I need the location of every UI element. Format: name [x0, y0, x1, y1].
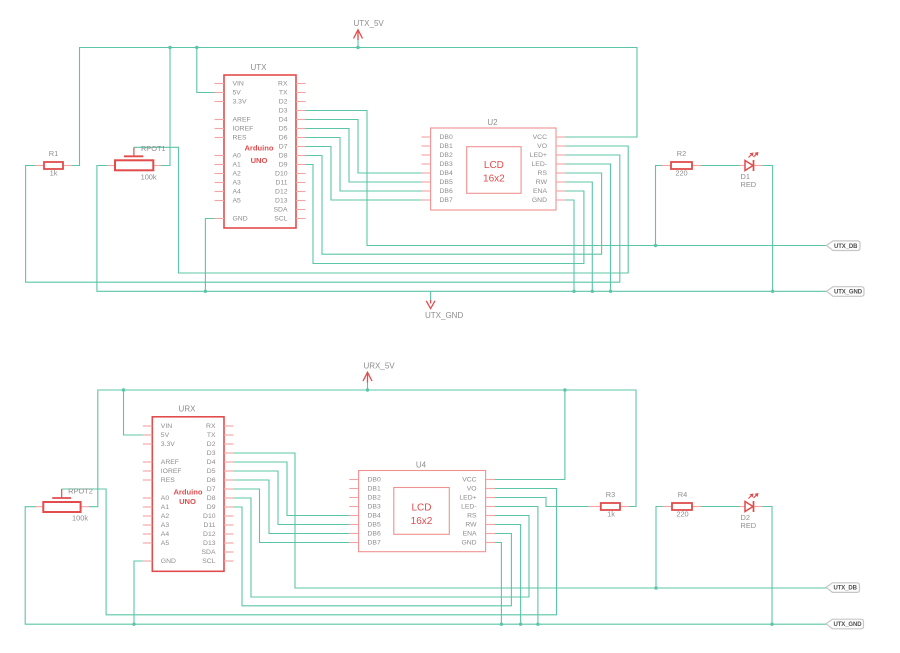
svg-text:ENA: ENA — [463, 530, 477, 537]
net label UTX_GND (bottom) — [826, 619, 864, 629]
wire URX D4 to U4 DB4 — [234, 462, 350, 516]
junction LCD RW/GND bus — [591, 290, 594, 293]
svg-text:LED-: LED- — [532, 161, 548, 168]
junction U4 LED-/GND bus — [536, 623, 539, 626]
wire R1 left to LCD LED+ — [26, 155, 620, 282]
svg-text:D4: D4 — [207, 459, 216, 466]
IC URX Arduino UNO — [143, 405, 234, 572]
svg-text:URX: URX — [179, 405, 197, 414]
IC UTX Arduino UNO — [215, 63, 306, 228]
svg-text:IOREF: IOREF — [233, 125, 254, 132]
wire UTX D4 to LCD DB4 — [306, 120, 422, 174]
svg-text:5V: 5V — [161, 432, 170, 439]
wire D1 cathode to GND bus — [763, 166, 773, 292]
svg-text:A3: A3 — [233, 179, 242, 186]
wire URX D3 to UTX_DB flag — [234, 453, 828, 588]
LED D1 RED — [740, 152, 763, 189]
svg-text:D10: D10 — [203, 513, 216, 520]
svg-text:A0: A0 — [233, 152, 242, 159]
svg-text:D7: D7 — [279, 143, 288, 150]
svg-text:Arduino: Arduino — [173, 488, 202, 497]
svg-text:D12: D12 — [275, 188, 288, 195]
svg-text:D9: D9 — [279, 161, 288, 168]
svg-text:UTX_5V: UTX_5V — [354, 19, 385, 28]
wire LCD GND to GND bus — [566, 200, 575, 291]
svg-text:D11: D11 — [204, 522, 216, 529]
wire R4 to D2 — [701, 506, 740, 508]
svg-text:D5: D5 — [207, 468, 216, 475]
svg-text:DB0: DB0 — [368, 476, 381, 483]
svg-text:A3: A3 — [161, 522, 170, 529]
svg-text:LED-: LED- — [461, 503, 477, 510]
svg-text:GND: GND — [532, 197, 547, 204]
svg-text:VO: VO — [537, 143, 547, 150]
svg-text:GND: GND — [233, 215, 248, 222]
wire UTX_DB net to R4 left — [656, 507, 663, 589]
svg-text:A4: A4 — [161, 531, 170, 538]
svg-text:R4: R4 — [678, 490, 687, 499]
wire URX D6 to U4 DB6 — [234, 480, 350, 534]
svg-text:RS: RS — [538, 170, 548, 177]
svg-text:AREF: AREF — [233, 116, 251, 123]
svg-text:RPOT1: RPOT1 — [141, 144, 166, 153]
svg-text:D7: D7 — [207, 486, 216, 493]
wire URX D5 to U4 DB5 — [234, 471, 350, 525]
svg-text:D6: D6 — [207, 477, 216, 484]
junction UTX GND/GND bus — [204, 290, 207, 293]
svg-text:DB3: DB3 — [440, 161, 453, 168]
svg-text:D8: D8 — [207, 495, 216, 502]
svg-text:Arduino: Arduino — [244, 144, 273, 153]
svg-text:VCC: VCC — [533, 134, 547, 141]
svg-text:DB5: DB5 — [368, 521, 381, 528]
svg-text:RS: RS — [467, 512, 477, 519]
wire RPOT1 right to 5V bus — [161, 48, 170, 166]
wire UTX D7 to LCD DB7 — [306, 147, 422, 201]
LED D2 RED — [740, 493, 763, 530]
svg-text:DB6: DB6 — [440, 188, 453, 195]
junction UTX 5V pin/5V bus — [195, 46, 198, 49]
svg-text:LED+: LED+ — [459, 494, 476, 501]
junction R2 branch on UTX_DB net — [654, 244, 657, 247]
junction RPOT1/5V bus — [168, 46, 171, 49]
svg-text:RW: RW — [465, 521, 477, 528]
wire RPOT2 wiper to U4 VO — [62, 489, 557, 615]
junction U4 VCC/5V bus — [563, 388, 566, 391]
svg-text:UTX_DB: UTX_DB — [834, 244, 858, 250]
svg-text:DB7: DB7 — [368, 539, 381, 546]
svg-text:VIN: VIN — [161, 423, 172, 430]
svg-text:D8: D8 — [279, 152, 288, 159]
svg-text:IOREF: IOREF — [161, 468, 182, 475]
svg-text:A5: A5 — [233, 197, 242, 204]
power flag URX_5V — [363, 362, 395, 392]
svg-text:VIN: VIN — [233, 80, 244, 87]
svg-text:DB2: DB2 — [368, 494, 381, 501]
power flag UTX_5V — [354, 19, 385, 49]
svg-text:D13: D13 — [203, 540, 216, 547]
svg-text:D5: D5 — [279, 125, 288, 132]
svg-text:D4: D4 — [279, 116, 288, 123]
net label UTX_DB (bottom) — [826, 583, 860, 593]
potentiometer RPOT2 100k — [36, 487, 93, 523]
junction R4 branch on UTX_DB net — [654, 586, 657, 589]
wire R2 to D1 — [701, 165, 740, 167]
wire U4 LED+ to R3 left — [495, 498, 589, 507]
svg-text:D2: D2 — [207, 441, 216, 448]
svg-text:SDA: SDA — [202, 549, 216, 556]
svg-text:D11: D11 — [276, 179, 288, 186]
svg-text:UTX_DB: UTX_DB — [834, 586, 858, 592]
svg-text:220: 220 — [676, 510, 688, 519]
junction U4 GND/GND bus — [500, 623, 503, 626]
junction D2 cathode/GND bus — [770, 623, 773, 626]
potentiometer RPOT1 100k — [108, 144, 166, 182]
wire GND bus top (RPOT1 left to UTX_GND flag) — [97, 166, 827, 292]
svg-text:VO: VO — [467, 485, 477, 492]
IC U4 LCD 16x2 — [349, 461, 495, 552]
wire U4 GND to GND bus — [495, 543, 501, 625]
svg-text:A1: A1 — [161, 504, 170, 511]
svg-text:16x2: 16x2 — [483, 174, 505, 185]
junction U4 RW/GND bus — [519, 623, 522, 626]
svg-text:D3: D3 — [207, 450, 216, 457]
svg-text:U2: U2 — [487, 118, 498, 127]
svg-text:LCD: LCD — [484, 160, 504, 171]
resistor R3 1k — [589, 490, 629, 519]
svg-text:3.3V: 3.3V — [233, 98, 247, 105]
svg-text:SCL: SCL — [274, 215, 287, 222]
junction URX 5V pin/5V bus — [122, 388, 125, 391]
svg-text:D10: D10 — [275, 170, 288, 177]
resistor R4 220 — [663, 490, 701, 519]
svg-text:100k: 100k — [72, 514, 88, 523]
svg-text:SCL: SCL — [202, 558, 215, 565]
wire UTX D3 to UTX_DB flag — [306, 111, 828, 246]
wire UTX D8 to LCD RS — [306, 156, 602, 255]
junction LCD GND/GND bus — [572, 290, 575, 293]
wire UTX GND pin to GND bus — [205, 219, 214, 292]
svg-text:RW: RW — [536, 179, 548, 186]
wire UTX D5 to LCD DB5 — [306, 129, 422, 183]
wire URX D9 to U4 ENA — [234, 507, 512, 606]
svg-text:LED+: LED+ — [530, 152, 547, 159]
svg-text:1k: 1k — [607, 510, 615, 519]
svg-text:D12: D12 — [203, 531, 216, 538]
svg-text:D13: D13 — [275, 197, 288, 204]
svg-text:DB1: DB1 — [368, 485, 381, 492]
svg-text:VCC: VCC — [462, 476, 476, 483]
wire 5V bus bottom (RPOT2 right to R3 right) — [89, 390, 636, 507]
svg-text:UTX_GND: UTX_GND — [425, 311, 463, 320]
wire GND bus bottom (RPOT2 left to UTX_GND flag) — [25, 507, 827, 625]
svg-text:RX: RX — [206, 423, 216, 430]
wire URX D8 to U4 RS — [234, 498, 530, 597]
svg-text:TX: TX — [279, 89, 288, 96]
svg-text:RES: RES — [161, 477, 175, 484]
resistor R1 1k — [35, 149, 72, 178]
wire URX GND pin to GND bus — [134, 561, 143, 624]
wire 5V bus to UTX 5V pin — [197, 48, 215, 93]
svg-text:GND: GND — [461, 539, 476, 546]
junction D1 cathode/GND bus — [771, 290, 774, 293]
svg-text:DB2: DB2 — [440, 152, 453, 159]
wire UTX D6 to LCD DB6 — [306, 138, 422, 192]
svg-text:RED: RED — [741, 521, 757, 530]
wire 5V bus to LCD U4 VCC — [495, 390, 565, 480]
svg-text:A4: A4 — [233, 188, 242, 195]
junction URX GND/GND bus — [132, 623, 135, 626]
svg-text:AREF: AREF — [161, 459, 179, 466]
svg-text:DB4: DB4 — [368, 512, 381, 519]
IC U2 LCD 16x2 — [422, 118, 566, 210]
svg-text:R2: R2 — [677, 149, 686, 158]
net label UTX_GND (top) — [827, 287, 865, 297]
wire LCD RW to GND bus — [566, 182, 593, 291]
svg-text:R3: R3 — [606, 490, 615, 499]
resistor R2 220 — [662, 149, 701, 178]
svg-text:3.3V: 3.3V — [161, 441, 175, 448]
svg-text:UTX_GND: UTX_GND — [834, 290, 863, 296]
svg-text:D6: D6 — [279, 134, 288, 141]
svg-text:GND: GND — [161, 558, 176, 565]
svg-text:SDA: SDA — [274, 206, 288, 213]
wire UTX_DB net to R2 left — [656, 166, 663, 246]
svg-text:A0: A0 — [161, 495, 170, 502]
svg-text:TX: TX — [207, 432, 216, 439]
net label UTX_DB (top) — [827, 241, 861, 251]
svg-text:D2: D2 — [279, 98, 288, 105]
svg-text:100k: 100k — [141, 173, 157, 182]
wire LCD LED- to GND bus — [566, 164, 611, 291]
svg-text:U4: U4 — [416, 461, 427, 470]
svg-text:16x2: 16x2 — [411, 516, 433, 527]
svg-text:RX: RX — [278, 80, 288, 87]
svg-text:D9: D9 — [207, 504, 216, 511]
power flag UTX_GND — [425, 291, 463, 320]
svg-text:A2: A2 — [161, 513, 170, 520]
svg-text:UTX: UTX — [251, 63, 268, 72]
svg-text:URX_5V: URX_5V — [364, 362, 396, 371]
svg-text:DB6: DB6 — [368, 530, 381, 537]
svg-text:5V: 5V — [233, 89, 242, 96]
svg-text:1k: 1k — [50, 169, 58, 178]
svg-text:RPOT2: RPOT2 — [68, 487, 93, 496]
svg-text:A1: A1 — [233, 161, 242, 168]
svg-text:220: 220 — [675, 169, 687, 178]
wire URX D7 to U4 DB7 — [234, 489, 350, 543]
wire U4 RW to GND bus — [495, 525, 521, 625]
svg-text:UNO: UNO — [251, 156, 268, 165]
svg-text:R1: R1 — [49, 149, 58, 158]
svg-text:LCD: LCD — [411, 503, 431, 514]
svg-text:RES: RES — [233, 134, 247, 141]
wire UTX D9 to LCD ENA — [306, 165, 584, 264]
junction LCD LED-/GND bus — [609, 290, 612, 293]
svg-text:A5: A5 — [161, 540, 170, 547]
svg-text:ENA: ENA — [533, 188, 547, 195]
svg-text:DB1: DB1 — [440, 143, 453, 150]
svg-text:DB0: DB0 — [440, 134, 453, 141]
svg-text:UTX_GND: UTX_GND — [834, 622, 863, 628]
svg-text:DB4: DB4 — [440, 170, 453, 177]
wire 5V bus to URX 5V pin — [124, 390, 143, 435]
wire D2 cathode to GND bus — [763, 507, 773, 625]
svg-text:DB5: DB5 — [440, 179, 453, 186]
wire U4 LED- to GND bus — [495, 507, 538, 625]
svg-text:D3: D3 — [279, 107, 288, 114]
svg-text:A2: A2 — [233, 170, 242, 177]
svg-text:UNO: UNO — [179, 497, 196, 506]
svg-text:DB3: DB3 — [368, 503, 381, 510]
svg-text:DB7: DB7 — [440, 197, 453, 204]
wire 5V bus top (R1 right to LCD VCC) — [72, 48, 637, 166]
wire RPOT1 wiper to LCD VO — [134, 146, 628, 273]
svg-text:RED: RED — [741, 180, 757, 189]
